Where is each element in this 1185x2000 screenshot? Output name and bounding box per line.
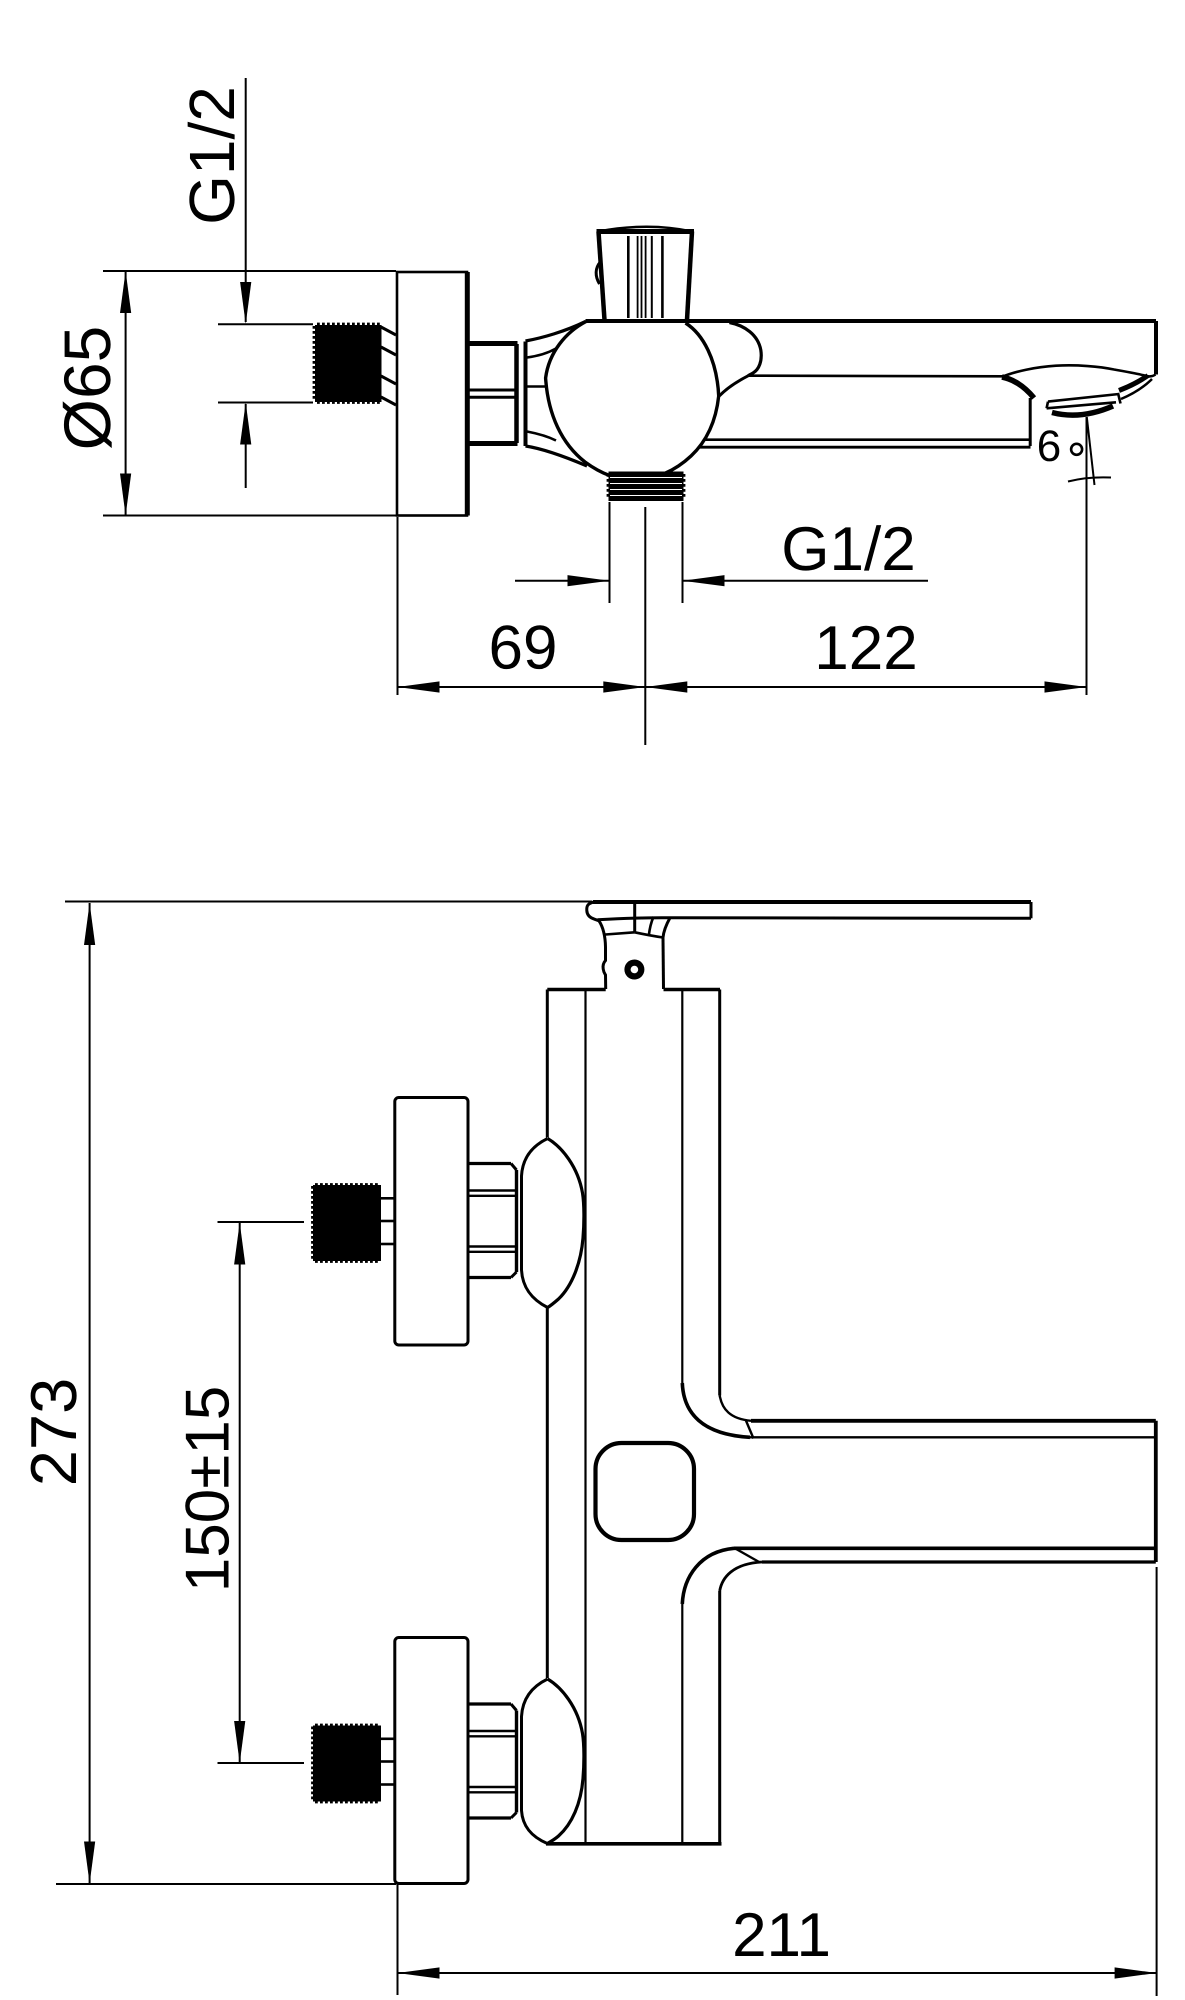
- main body sphere (top view): [546, 322, 719, 481]
- arrow 211 left: [398, 1967, 440, 1978]
- lower wall flange: [395, 1638, 468, 1884]
- lower inlet assembly: [395, 1638, 584, 1884]
- aerator right edge: [1118, 393, 1121, 404]
- svg-text:G1/2: G1/2: [781, 515, 915, 584]
- dia65 dimension line: [125, 271, 127, 516]
- 150 dimension line: [239, 1223, 241, 1764]
- handle stem right edge: [662, 938, 666, 990]
- lower threaded stud (black): [313, 1726, 381, 1802]
- arrow outlet left: [683, 575, 725, 586]
- tip right inner curve: [1121, 379, 1152, 399]
- G1/2 extension top: [218, 323, 313, 325]
- G1/2 extension bottom: [218, 402, 313, 404]
- labels bottom view: [17, 1378, 831, 1970]
- arrow G1/2 down: [240, 282, 251, 324]
- svg-text:Ø65: Ø65: [50, 326, 124, 451]
- handle lever top: [593, 900, 1031, 904]
- body inner left line: [584, 990, 586, 1844]
- 211 extension left: [397, 1884, 399, 1995]
- spout top edge: [751, 1419, 1156, 1423]
- body outer right line: [718, 990, 721, 1396]
- dia65 extension bottom: [103, 515, 396, 517]
- neck bottom inner curve: [527, 432, 556, 441]
- svg-text:211: 211: [732, 1901, 831, 1970]
- neck top curve: [526, 322, 586, 342]
- aerator lip: [1052, 406, 1113, 415]
- spout top inner line: [750, 1436, 1154, 1438]
- aerator lower line: [1047, 402, 1116, 408]
- upper inlet assembly: [395, 1098, 584, 1346]
- handle right end: [1030, 902, 1033, 918]
- arrow 273 down: [84, 1842, 95, 1884]
- arrow 69 left: [398, 681, 440, 692]
- thread taper diagonal 1: [381, 327, 396, 335]
- spout opening rounded square: [596, 1443, 695, 1540]
- outlet centerline: [644, 507, 646, 745]
- flange extension line: [397, 517, 399, 695]
- upper junction thick elbow: [682, 1383, 750, 1437]
- spout mid line: [748, 374, 1003, 377]
- dia65 extension top: [103, 270, 396, 272]
- lower stud tabs: [381, 1738, 395, 1741]
- spout (bottom view): [596, 1383, 1156, 1604]
- spout shoulder petal: [729, 323, 761, 376]
- upper threaded stud (black): [313, 1185, 381, 1261]
- tip right crescent: [1119, 376, 1148, 391]
- 211 dimension line: [398, 1972, 1157, 1974]
- spout under band bottom line: [699, 446, 1031, 449]
- svg-text:150±15: 150±15: [174, 1386, 243, 1592]
- spout top line: [586, 319, 1157, 323]
- spout end extension line: [1086, 417, 1088, 695]
- svg-text:122: 122: [814, 614, 917, 683]
- 6 deg arc: [1068, 477, 1111, 481]
- arrow outlet right: [568, 575, 610, 586]
- body base ring: [524, 342, 528, 447]
- body top edge: [547, 988, 605, 991]
- neck bottom curve: [526, 446, 588, 466]
- outlet extension left: [609, 502, 611, 603]
- svg-text:273: 273: [17, 1378, 90, 1486]
- G1/2 outlet dim line left: [515, 580, 610, 582]
- handle underside: [598, 918, 1032, 920]
- G1/2 top leader line upper: [245, 78, 247, 322]
- arrow 211 right: [1115, 1967, 1157, 1978]
- lower escutcheon dome outer: [547, 1679, 584, 1844]
- handle screw: [624, 960, 644, 980]
- handle left end cap: [587, 902, 599, 921]
- thread taper diagonal 2: [381, 347, 396, 355]
- arrows top view: [120, 271, 1087, 693]
- lower escutcheon dome inner: [522, 1679, 548, 1844]
- thread taper diagonal 4: [381, 397, 396, 405]
- labels top view: [50, 86, 918, 683]
- 273 bottom extension: [56, 1883, 396, 1885]
- threaded inlet stud (top view, hatched black): [315, 325, 382, 402]
- neck mid line: [526, 385, 546, 388]
- arrow dia65 down: [120, 474, 131, 516]
- spout bottom edge: [762, 1560, 1156, 1563]
- tip left crescent: [1002, 377, 1034, 398]
- wall flange (top view): [397, 272, 467, 516]
- upper escutcheon dome outer: [548, 1139, 584, 1308]
- upper junction thin elbow: [720, 1396, 751, 1421]
- petal under-curve: [719, 376, 748, 396]
- G1/2 outlet dim line right: [683, 580, 929, 582]
- stem saddle right: [635, 932, 663, 937]
- upper junction seam: [746, 1420, 754, 1439]
- lower junction thick elbow: [682, 1548, 734, 1604]
- handle stem left edge: [599, 921, 606, 989]
- G1/2 top leader line lower: [245, 404, 247, 488]
- upper stud tabs: [381, 1197, 395, 1200]
- 211 extension right: [1156, 1567, 1158, 1996]
- tip top wave: [1003, 365, 1156, 376]
- svg-text:G1/2: G1/2: [176, 86, 248, 225]
- upper nut: [468, 1164, 517, 1278]
- spout bottom inner line: [734, 1547, 1154, 1551]
- lower nut: [468, 1704, 517, 1818]
- arrow G1/2 up: [240, 403, 251, 445]
- stem crease: [633, 902, 636, 932]
- arrow 150 down: [234, 1721, 245, 1763]
- spout right end edge: [1154, 321, 1158, 375]
- stud serration top edge: [317, 323, 380, 326]
- outlet extension right: [682, 502, 684, 603]
- aerator left edge: [1047, 402, 1048, 409]
- spout under band top line: [704, 438, 1030, 441]
- arrow 122 left: [645, 681, 687, 692]
- stem saddle left: [606, 932, 635, 934]
- 69-122 dimension line: [398, 686, 1087, 688]
- stud serration bottom edge: [317, 401, 380, 404]
- 150 extension bottom: [218, 1762, 305, 1764]
- arrow dia65 up: [120, 271, 131, 313]
- body inner right line: [681, 990, 683, 1384]
- body outer left line: [546, 990, 549, 1138]
- arrow 150 up: [234, 1223, 245, 1265]
- hex nut (top view): [469, 344, 518, 444]
- stem fillet outer: [663, 918, 670, 938]
- upper wall flange: [395, 1098, 468, 1346]
- stud serration left edge: [313, 326, 316, 401]
- lower junction thin elbow: [720, 1562, 762, 1591]
- arrow 122 right: [1045, 681, 1087, 692]
- neck top inner curve: [527, 349, 556, 358]
- 150 extension top: [218, 1221, 305, 1223]
- 273 top extension: [65, 901, 592, 903]
- upper escutcheon dome inner: [522, 1139, 548, 1308]
- bottom outlet threads (black): [609, 472, 684, 502]
- lower junction seam: [734, 1548, 761, 1563]
- wall flange right edge thick: [465, 272, 470, 516]
- 6 deg ray: [1087, 417, 1095, 485]
- body bottom edge: [546, 1842, 722, 1846]
- svg-text:69: 69: [489, 614, 558, 683]
- arrow 273 up: [84, 903, 95, 945]
- stem fillet inner: [649, 917, 654, 936]
- degree circle: [1071, 444, 1082, 455]
- spout right edge: [1154, 1421, 1158, 1562]
- arrow 69 right: [603, 681, 645, 692]
- thread taper diagonal 3: [381, 376, 396, 384]
- arrows bottom view: [84, 903, 1157, 1979]
- diverter knob (top view): [596, 227, 694, 320]
- aerator top line: [1048, 394, 1119, 402]
- svg-text:6: 6: [1037, 422, 1061, 471]
- 273 dimension line: [89, 903, 91, 1884]
- tip chin edge: [1029, 398, 1032, 446]
